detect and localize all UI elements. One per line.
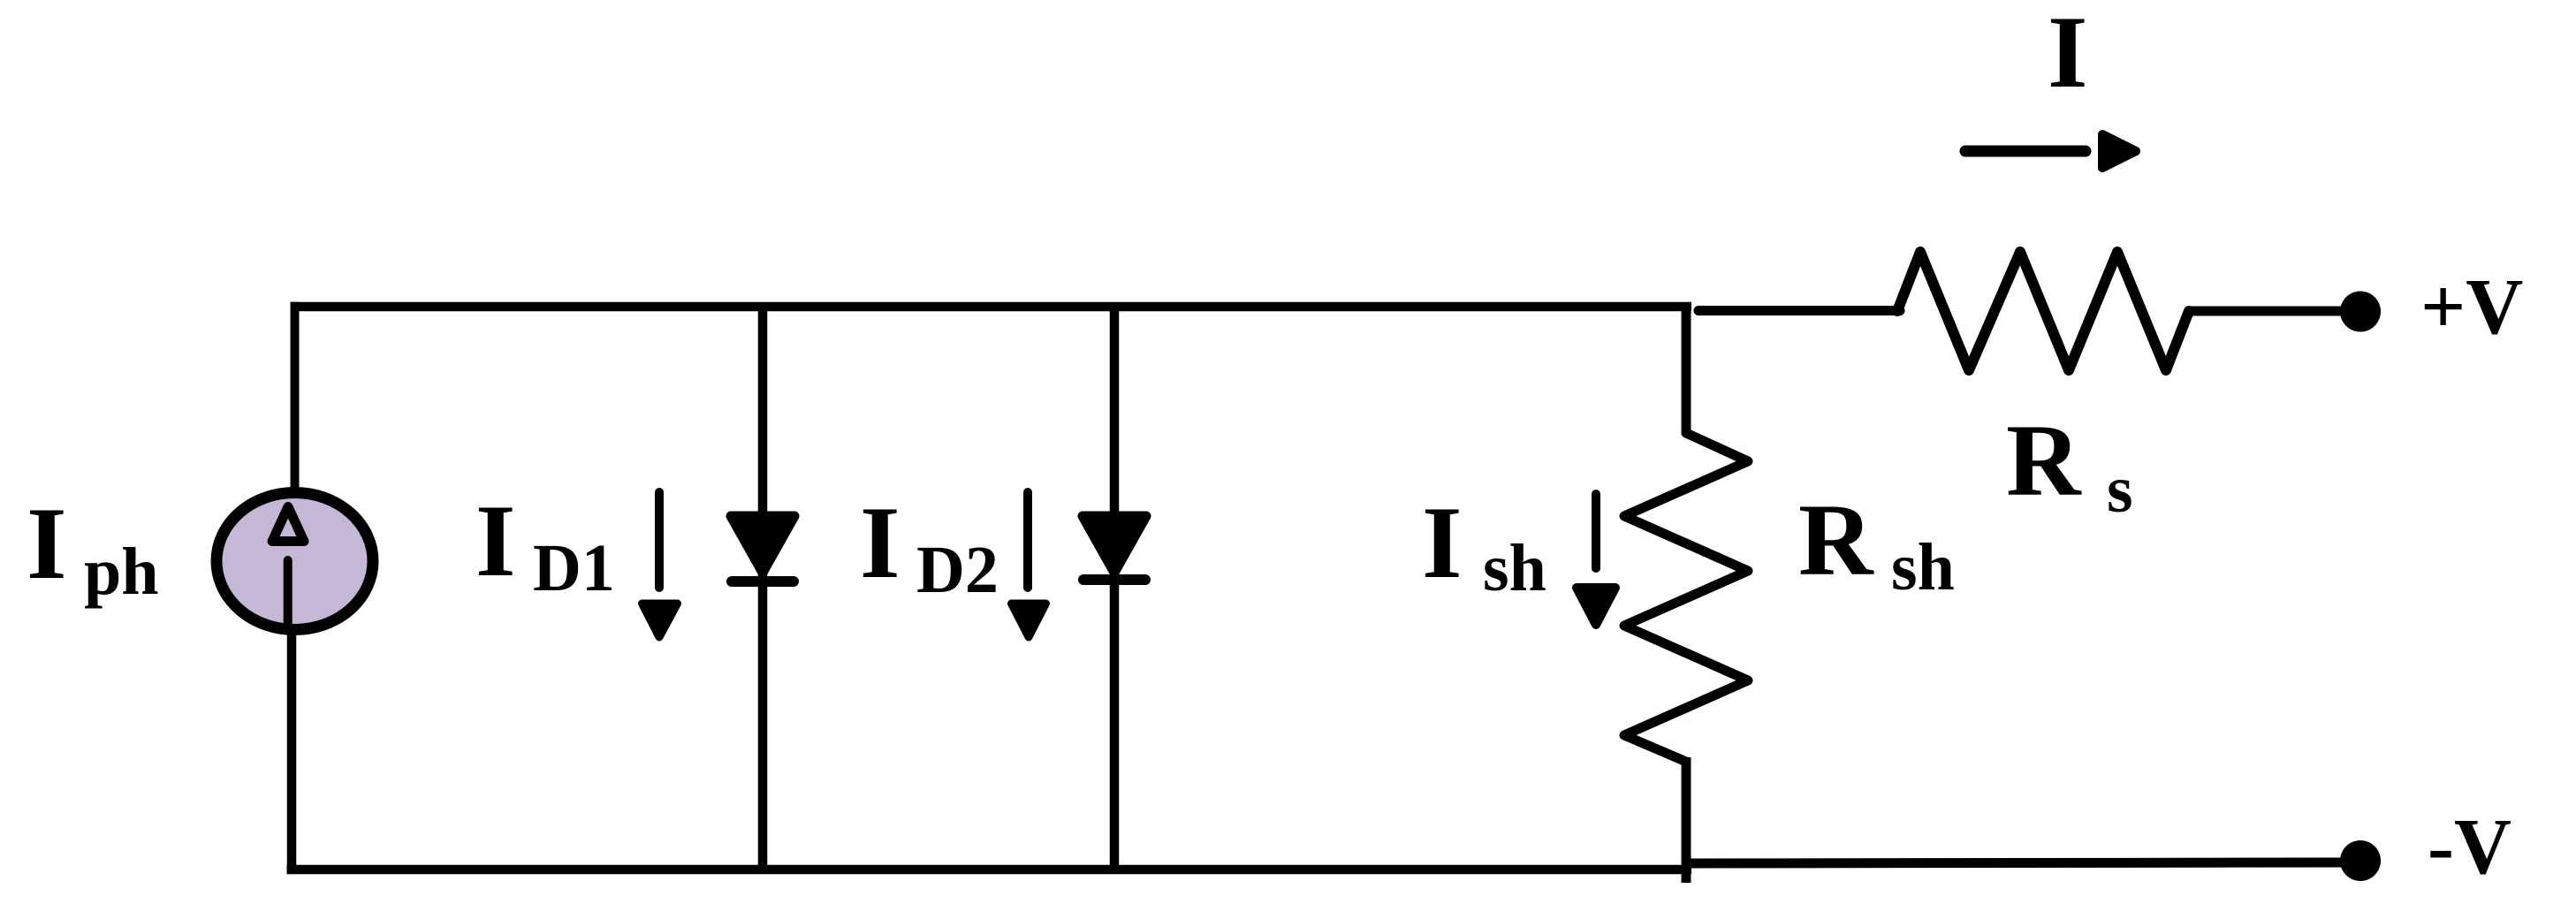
svg-text:I: I	[860, 486, 900, 600]
svg-text:ph: ph	[84, 535, 159, 609]
resistor Rsh	[1624, 433, 1748, 762]
svg-text:I: I	[2048, 0, 2088, 110]
current arrow ID2	[1012, 492, 1046, 637]
wire bottom rail right	[1682, 862, 2344, 863]
wire diode D1 branch	[758, 302, 768, 874]
svg-text:sh: sh	[1483, 531, 1546, 605]
current source Iph	[217, 493, 373, 630]
wire diode D2 branch	[1110, 302, 1120, 874]
svg-text:I: I	[1422, 486, 1463, 600]
wire Rsh bottom lead	[1682, 757, 1691, 883]
svg-text:s: s	[2107, 452, 2133, 527]
wire Rs to terminal	[2189, 307, 2344, 316]
wire Rsh top lead	[1682, 302, 1691, 435]
svg-text:R: R	[1798, 483, 1874, 597]
wire bottom rail left	[287, 865, 1692, 875]
label ID2	[860, 486, 999, 607]
wire top rail right	[1698, 306, 1900, 315]
terminal -V	[2340, 840, 2381, 881]
label Rsh	[1798, 483, 1955, 604]
svg-text:sh: sh	[1891, 530, 1955, 604]
wire left drop from top rail to current source	[291, 302, 300, 495]
label Ish	[1422, 486, 1546, 605]
current arrow I	[1965, 134, 2136, 168]
terminal +V	[2340, 292, 2381, 332]
resistor Rs	[1897, 252, 2189, 370]
svg-text:+V: +V	[2420, 263, 2523, 351]
svg-text:-V: -V	[2428, 803, 2511, 891]
wire top rail left	[291, 302, 1692, 312]
current arrow Ish	[1577, 494, 1615, 625]
svg-text:D2: D2	[916, 533, 999, 607]
wire left drop from current source to bottom rail	[287, 627, 297, 874]
svg-text:R: R	[2006, 404, 2082, 518]
current arrow ID1	[642, 492, 678, 637]
diode D2	[1083, 516, 1146, 580]
svg-text:D1: D1	[533, 531, 615, 605]
label ID1	[475, 484, 615, 605]
diode D1	[731, 516, 794, 581]
label Iph	[27, 487, 159, 609]
svg-text:I: I	[475, 484, 516, 598]
svg-text:I: I	[27, 487, 67, 601]
label Rs	[2006, 404, 2133, 527]
